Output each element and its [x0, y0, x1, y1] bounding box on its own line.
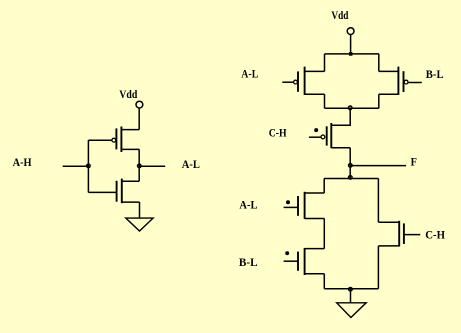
wire M3 gate lead [282, 81, 293, 83]
wire M6 gate lead [284, 206, 298, 208]
wire M2 gate lead [88, 191, 116, 193]
transistor M7 NMOS gate B-L (pull-down series bottom) [298, 248, 324, 275]
wire top rail to M4 drain (right vertical) [378, 54, 380, 72]
transistor M5 PMOS gate C-H (series pull-up) [321, 123, 350, 148]
node output junction (right) [138, 164, 142, 168]
svg-text:B-L: B-L [426, 69, 444, 81]
annotation bullet at M6 gate [286, 200, 290, 204]
node F junction lower [349, 176, 353, 180]
node F junction upper [349, 164, 353, 168]
wire top rail to M3 drain (left vertical) [324, 54, 326, 72]
svg-text:B-L: B-L [239, 257, 258, 269]
wire M8 source to bottom rail (vertical) [377, 246, 379, 289]
annotation bullet at M5 gate [314, 128, 318, 132]
svg-text:F: F [411, 157, 417, 169]
node input junction (left) [87, 164, 91, 168]
wire Vdd circle to PMOS drain (vertical) [138, 108, 140, 129]
wire top rail to M8 drain (right vertical) [377, 179, 379, 223]
wire top rail to M6 drain (left vertical) [323, 179, 325, 194]
wire mid rail horizontal [325, 107, 379, 109]
wire M8 gate lead [404, 234, 420, 236]
svg-text:C-H: C-H [269, 128, 287, 140]
ground (left circuit) [126, 218, 153, 231]
node top rail junction [349, 52, 353, 56]
annotation bullet at M7 gate [285, 251, 289, 255]
wire bottom rail to ground (vertical) [350, 289, 352, 303]
svg-text:C-H: C-H [425, 230, 445, 242]
transistor M2 NMOS (inverter pull-down) [117, 179, 140, 204]
wire M5 gate lead [309, 136, 321, 138]
Vdd terminal circle (right circuit) [347, 28, 354, 35]
wire node F horizontal [350, 165, 406, 167]
wire M1 gate lead [88, 139, 111, 141]
wire M3 source to mid rail (left vertical) [324, 94, 326, 108]
wire Vdd circle to top rail (vertical) [350, 35, 352, 54]
wire output to A-L label [139, 165, 165, 167]
transistor M4 PMOS gate B-L (pull-up right, mirrored) [379, 67, 408, 95]
wire M1 source to output node (vertical) [138, 149, 140, 181]
svg-text:A-L: A-L [182, 159, 200, 171]
svg-text:A-L: A-L [239, 200, 257, 212]
wire top rail horizontal [325, 53, 380, 55]
wire mid rail to M5 drain (vertical and jog) [331, 108, 350, 125]
transistor M3 PMOS gate A-L (pull-up left) [294, 67, 325, 95]
svg-text:Vdd: Vdd [119, 89, 138, 101]
wire input A-H horizontal [63, 165, 89, 167]
svg-text:Vdd: Vdd [331, 10, 348, 22]
wire M2 source to ground (vertical) [139, 202, 141, 218]
wire M7 gate lead [284, 260, 298, 262]
transistor M1 PMOS (inverter pull-up) [112, 127, 139, 153]
wire gate bus vertical (connects M1 and M2 gates) [87, 140, 89, 192]
wire pull-down top rail horizontal [324, 178, 378, 180]
wire bottom rail horizontal [324, 288, 378, 290]
wire M5 source down to node F [349, 148, 351, 179]
transistor M8 NMOS gate C-H (pull-down parallel, mirrored) [378, 221, 404, 247]
node bottom rail junction [349, 287, 353, 291]
wire M4 source to mid rail (right vertical) [378, 94, 380, 108]
wire M6 source to M7 drain (vertical) [323, 219, 325, 249]
node mid rail junction [348, 106, 352, 110]
svg-text:A-H: A-H [13, 157, 32, 169]
Vdd terminal circle (left circuit) [136, 101, 143, 108]
transistor M6 NMOS gate A-L (pull-down series top) [298, 192, 324, 219]
wire M7 source to bottom rail (vertical) [323, 274, 325, 289]
ground (right circuit) [337, 303, 367, 318]
svg-text:A-L: A-L [241, 69, 258, 81]
wire M4 gate lead [408, 82, 422, 84]
